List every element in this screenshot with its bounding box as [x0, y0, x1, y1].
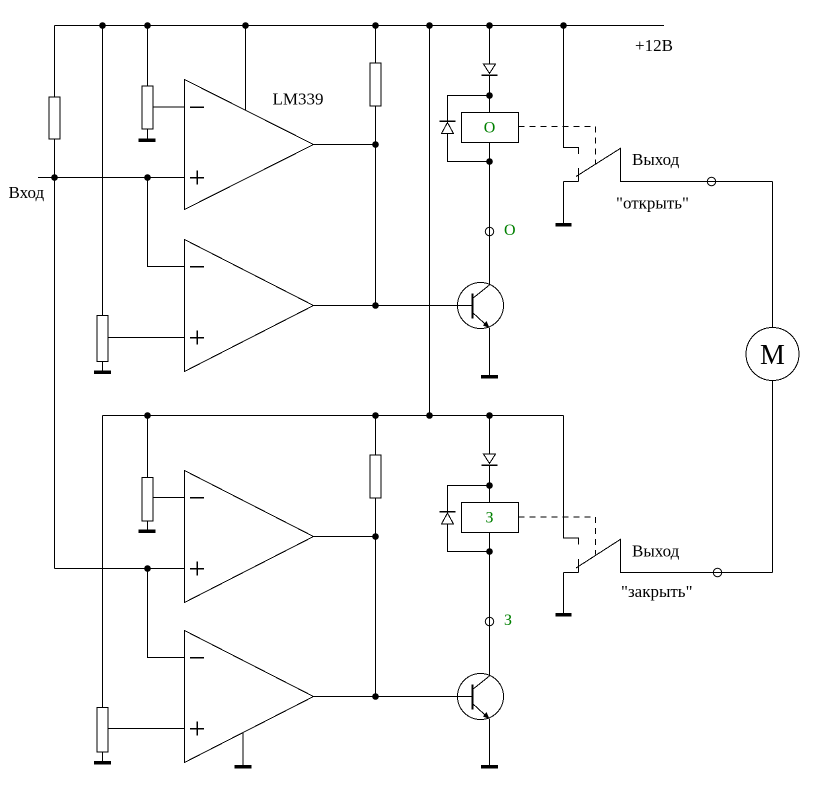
- terminal output open: [707, 177, 715, 185]
- wire second rail: [103, 415, 564, 417]
- svg-text:О: О: [484, 120, 496, 137]
- wire S2 pivot to ground: [563, 573, 565, 615]
- switch S1 blade: [576, 148, 621, 177]
- wire Q1 emitter to ground: [489, 328, 491, 377]
- U1 minus sign: [190, 106, 204, 108]
- svg-text:"закрыть": "закрыть": [621, 582, 693, 601]
- resistor R1: [49, 97, 60, 139]
- node lower input junction: [144, 565, 151, 572]
- wire D1 to relay K1: [489, 75, 491, 113]
- node rail dot x=489: [486, 22, 493, 29]
- U1 plus sign: [190, 171, 204, 185]
- node rail dot x=245: [242, 22, 249, 29]
- node test point Z: [485, 617, 493, 625]
- wire left column (R1 down to bottom input branch): [54, 139, 56, 569]
- wire R7 to op-amp U4 plus input: [108, 728, 185, 730]
- wire R6 bottom to U4 output junction: [375, 498, 377, 697]
- ground under Q2: [481, 765, 498, 769]
- svg-text:О: О: [504, 222, 516, 239]
- wire R3 bottom to U2 output junction: [375, 106, 377, 306]
- wire R5 to op-amp U3 minus input: [153, 497, 185, 499]
- node rail2 dot x=489: [486, 412, 493, 419]
- U4 plus sign: [190, 722, 204, 736]
- wire U2 output: [314, 305, 376, 307]
- ground under S1: [556, 223, 572, 227]
- wire flyback branch top: [448, 96, 490, 122]
- wire D4 to relay K2: [489, 465, 491, 503]
- wire U4 ground stub: [242, 733, 244, 767]
- svg-text:Вход: Вход: [9, 183, 45, 202]
- resistor R6: [370, 455, 381, 498]
- node relay bottom junction: [486, 158, 493, 165]
- transistor Q2: [458, 674, 504, 720]
- node U2 output junction: [372, 302, 379, 309]
- wire rail1 to rail2 column x=429: [429, 26, 431, 416]
- wire branch to U4 minus input: [148, 569, 185, 658]
- switch S1 pivot: [564, 168, 579, 182]
- resistor R7: [97, 708, 108, 753]
- wire R4 to ground: [102, 362, 104, 373]
- wire column x=102 (rail to resistor R4): [102, 26, 104, 316]
- op-amp U3: [185, 471, 314, 603]
- wire Q2 base: [376, 696, 473, 698]
- U2 minus sign: [190, 266, 204, 268]
- wire R2 to op-amp U1 minus input: [153, 106, 185, 108]
- ground under R7: [94, 761, 111, 765]
- node input junction B: [144, 174, 151, 181]
- wire rail2 to diode D4: [489, 416, 491, 455]
- U2 plus sign: [190, 331, 204, 345]
- wire U1 power stub from rail: [245, 26, 247, 111]
- svg-text:+12В: +12В: [635, 36, 673, 55]
- motor M1: [746, 328, 799, 381]
- op-amp U1: [185, 80, 314, 210]
- wire rail2 left column down (to resistor R7): [102, 416, 104, 708]
- resistor R3: [370, 63, 381, 106]
- resistor R2: [142, 86, 153, 129]
- ground under Q1: [481, 375, 498, 379]
- wire S1 pivot to ground: [563, 182, 565, 225]
- diode D4: [482, 454, 498, 465]
- node U3 output junction: [372, 533, 379, 540]
- wire U1 output: [314, 144, 376, 146]
- node test point O: [485, 227, 493, 235]
- node rail dot x=147: [144, 22, 151, 29]
- dashed relay K2 linkage: [519, 517, 596, 555]
- ground under R2: [139, 138, 156, 142]
- wire rail to switch S1 fixed contact: [564, 26, 579, 155]
- node rail dot x=429: [426, 22, 433, 29]
- svg-text:З: З: [504, 612, 512, 629]
- wire rail to diode D1: [489, 26, 491, 65]
- wire Q1 base: [376, 305, 473, 307]
- svg-text:LM339: LM339: [273, 90, 324, 109]
- wire flyback branch top K2: [448, 486, 490, 512]
- wire Q2 emitter to ground: [489, 719, 491, 767]
- wire flyback branch bottom K2: [448, 524, 490, 552]
- node rail dot x=563: [560, 22, 567, 29]
- wire left column top (rail to resistor R1): [54, 26, 56, 98]
- wire S1 output to motor line: [621, 148, 773, 182]
- wire flyback branch bottom: [448, 134, 490, 162]
- node relay K2 top junction: [486, 482, 493, 489]
- op-amp U2: [185, 240, 314, 372]
- diode D1: [482, 64, 498, 75]
- wire R4 to op-amp U2 plus input: [108, 337, 185, 339]
- U4 minus sign: [190, 657, 204, 659]
- wire K1 to collector junction: [489, 143, 491, 286]
- wire R7 to ground: [102, 752, 104, 763]
- wire rail2 to resistor R6: [375, 416, 377, 456]
- svg-text:З: З: [485, 510, 493, 527]
- svg-text:"открыть": "открыть": [616, 194, 689, 213]
- wire lower input line: [55, 568, 185, 570]
- svg-text:Выход: Выход: [632, 150, 680, 169]
- node rail2 dot x=375: [372, 412, 379, 419]
- wire U3 output: [314, 536, 376, 538]
- node input junction A: [51, 174, 58, 181]
- svg-text:М: М: [760, 340, 785, 371]
- node U4 output junction: [372, 693, 379, 700]
- dashed relay K1 linkage: [519, 127, 596, 165]
- transistor Q1: [458, 283, 504, 329]
- wire S2 output to motor line: [621, 539, 773, 573]
- relay K2 coil: [462, 503, 519, 533]
- node rail dot x=375: [372, 22, 379, 29]
- ground under U4: [235, 765, 252, 769]
- wire rail2 to switch S2 fixed contact: [564, 416, 579, 545]
- wire column x=147 (rail to resistor R2): [147, 26, 149, 87]
- node rail2 dot x=429: [426, 412, 433, 419]
- wire motor upper lead: [772, 182, 774, 328]
- U3 minus sign: [190, 497, 204, 499]
- ground under R5: [139, 529, 156, 533]
- wire +12V top rail: [55, 25, 665, 27]
- wire R5 to ground: [147, 521, 149, 531]
- op-amp U4: [185, 631, 314, 763]
- wire branch input to U2 minus input: [148, 178, 185, 267]
- svg-text:Выход: Выход: [632, 542, 680, 561]
- wire column x=375 (rail to R3): [375, 26, 377, 64]
- wire U4 output: [314, 696, 376, 698]
- resistor R4: [97, 316, 108, 362]
- resistor R5: [142, 478, 153, 522]
- switch S2 blade: [576, 539, 621, 568]
- wire motor lower lead: [772, 381, 774, 573]
- wire input line: [38, 177, 185, 179]
- wire R2 to ground: [147, 129, 149, 140]
- wire K2 to collector junction: [489, 533, 491, 677]
- U3 plus sign: [190, 562, 204, 576]
- node relay top junction: [486, 92, 493, 99]
- ground under R4: [94, 370, 111, 374]
- terminal output open lower: [713, 568, 721, 576]
- node rail dot x=102: [99, 22, 106, 29]
- node relay K2 bottom junction: [486, 548, 493, 555]
- ground under S2: [556, 613, 572, 617]
- wire rail2 to resistor R5: [147, 416, 149, 478]
- switch S2 pivot: [564, 559, 579, 573]
- relay K1 coil: [462, 113, 519, 143]
- node U1 output junction: [372, 141, 379, 148]
- diode D2 flyback: [440, 121, 456, 134]
- node rail2 dot x=147: [144, 412, 151, 419]
- diode D5 flyback: [440, 512, 456, 525]
